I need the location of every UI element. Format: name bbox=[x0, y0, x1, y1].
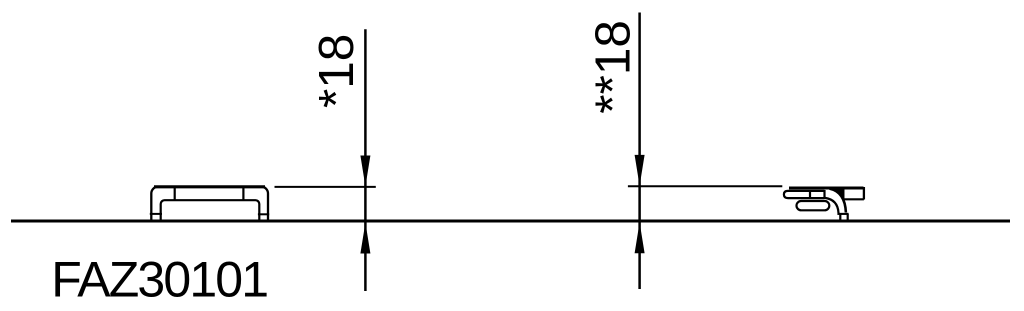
left object: tube end divider left bbox=[174, 187, 176, 201]
left object: tube end divider right bbox=[242, 187, 244, 201]
ground line bbox=[11, 220, 1010, 223]
svg-text:FAZ30101: FAZ30101 bbox=[51, 252, 267, 308]
dimension 2: vertical dimension line bbox=[638, 13, 641, 290]
dimension 1: vertical dimension line bbox=[364, 29, 367, 291]
left object: right leg tick bbox=[258, 213, 269, 215]
dimension 2: arrowhead up (below ground) bbox=[635, 222, 645, 253]
left object: bent-tube bracket outer contour bbox=[151, 187, 268, 221]
dimension 1: arrowhead down bbox=[360, 156, 370, 187]
right object: foot tick bbox=[837, 213, 848, 215]
right object: right rail rectangle bbox=[843, 189, 864, 199]
left object: inner contour left leg bbox=[161, 200, 260, 221]
right object: bend dark wedge bbox=[830, 188, 845, 202]
svg-text:**18: **18 bbox=[586, 20, 641, 114]
right object: upper tube divider 2 / bend tangent bbox=[823, 190, 825, 199]
right object: foot left edge bbox=[839, 214, 841, 221]
right object: top rail thick top line bbox=[789, 186, 864, 189]
right object: top rail right end cap bbox=[863, 187, 865, 200]
dimension 2: arrowhead down bbox=[635, 155, 645, 186]
right object: bend outer curve bbox=[830, 189, 846, 213]
dimension 1: extension line bbox=[275, 186, 376, 188]
dimension 2: extension line bbox=[628, 185, 782, 187]
right object: upper tube capsule (left rounded end) bbox=[784, 191, 825, 198]
dimension 1: arrowhead up (below ground) bbox=[360, 223, 370, 254]
right object: bend inner curve bbox=[825, 198, 839, 213]
svg-text:*18: *18 bbox=[309, 34, 364, 108]
left object: top edge thick bbox=[154, 185, 265, 188]
left object: left leg tick bbox=[150, 213, 162, 215]
right object: upper tube divider bbox=[809, 190, 811, 199]
right object: lower tube stadium (far rail) bbox=[797, 201, 830, 210]
right object: foot right edge bbox=[847, 214, 849, 221]
